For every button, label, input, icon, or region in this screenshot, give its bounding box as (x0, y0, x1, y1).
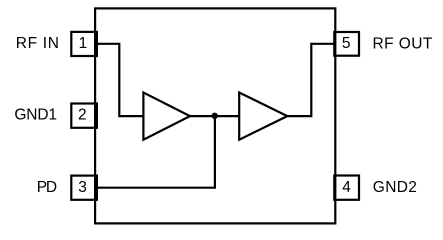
svg-text:5: 5 (342, 35, 351, 52)
svg-text:3: 3 (78, 179, 87, 196)
svg-text:RF IN: RF IN (16, 35, 59, 52)
junction node dot (212, 113, 218, 119)
wire pin1 to amp A1 input (97, 44, 143, 116)
svg-text:2: 2 (78, 107, 87, 124)
pin 1 box (71, 32, 97, 56)
wire junction to pin 3 (PD) (97, 116, 215, 188)
amplifier A2 (239, 93, 287, 140)
svg-text:GND2: GND2 (373, 179, 417, 196)
pin 4 box (334, 176, 359, 200)
pin 2 box (71, 104, 97, 128)
wire amp A1 output to amp A2 input (190, 115, 239, 117)
svg-text:GND1: GND1 (14, 107, 57, 124)
svg-text:1: 1 (79, 35, 88, 52)
pin 5 box (334, 32, 359, 56)
svg-text:PD: PD (37, 179, 57, 196)
svg-text:RF OUT: RF OUT (373, 35, 433, 52)
pin 3 box (71, 176, 97, 200)
amplifier A1 (143, 93, 190, 140)
IC package body U1 (95, 8, 335, 223)
svg-text:4: 4 (342, 179, 351, 196)
wire amp A2 output to pin 5 (287, 44, 334, 116)
